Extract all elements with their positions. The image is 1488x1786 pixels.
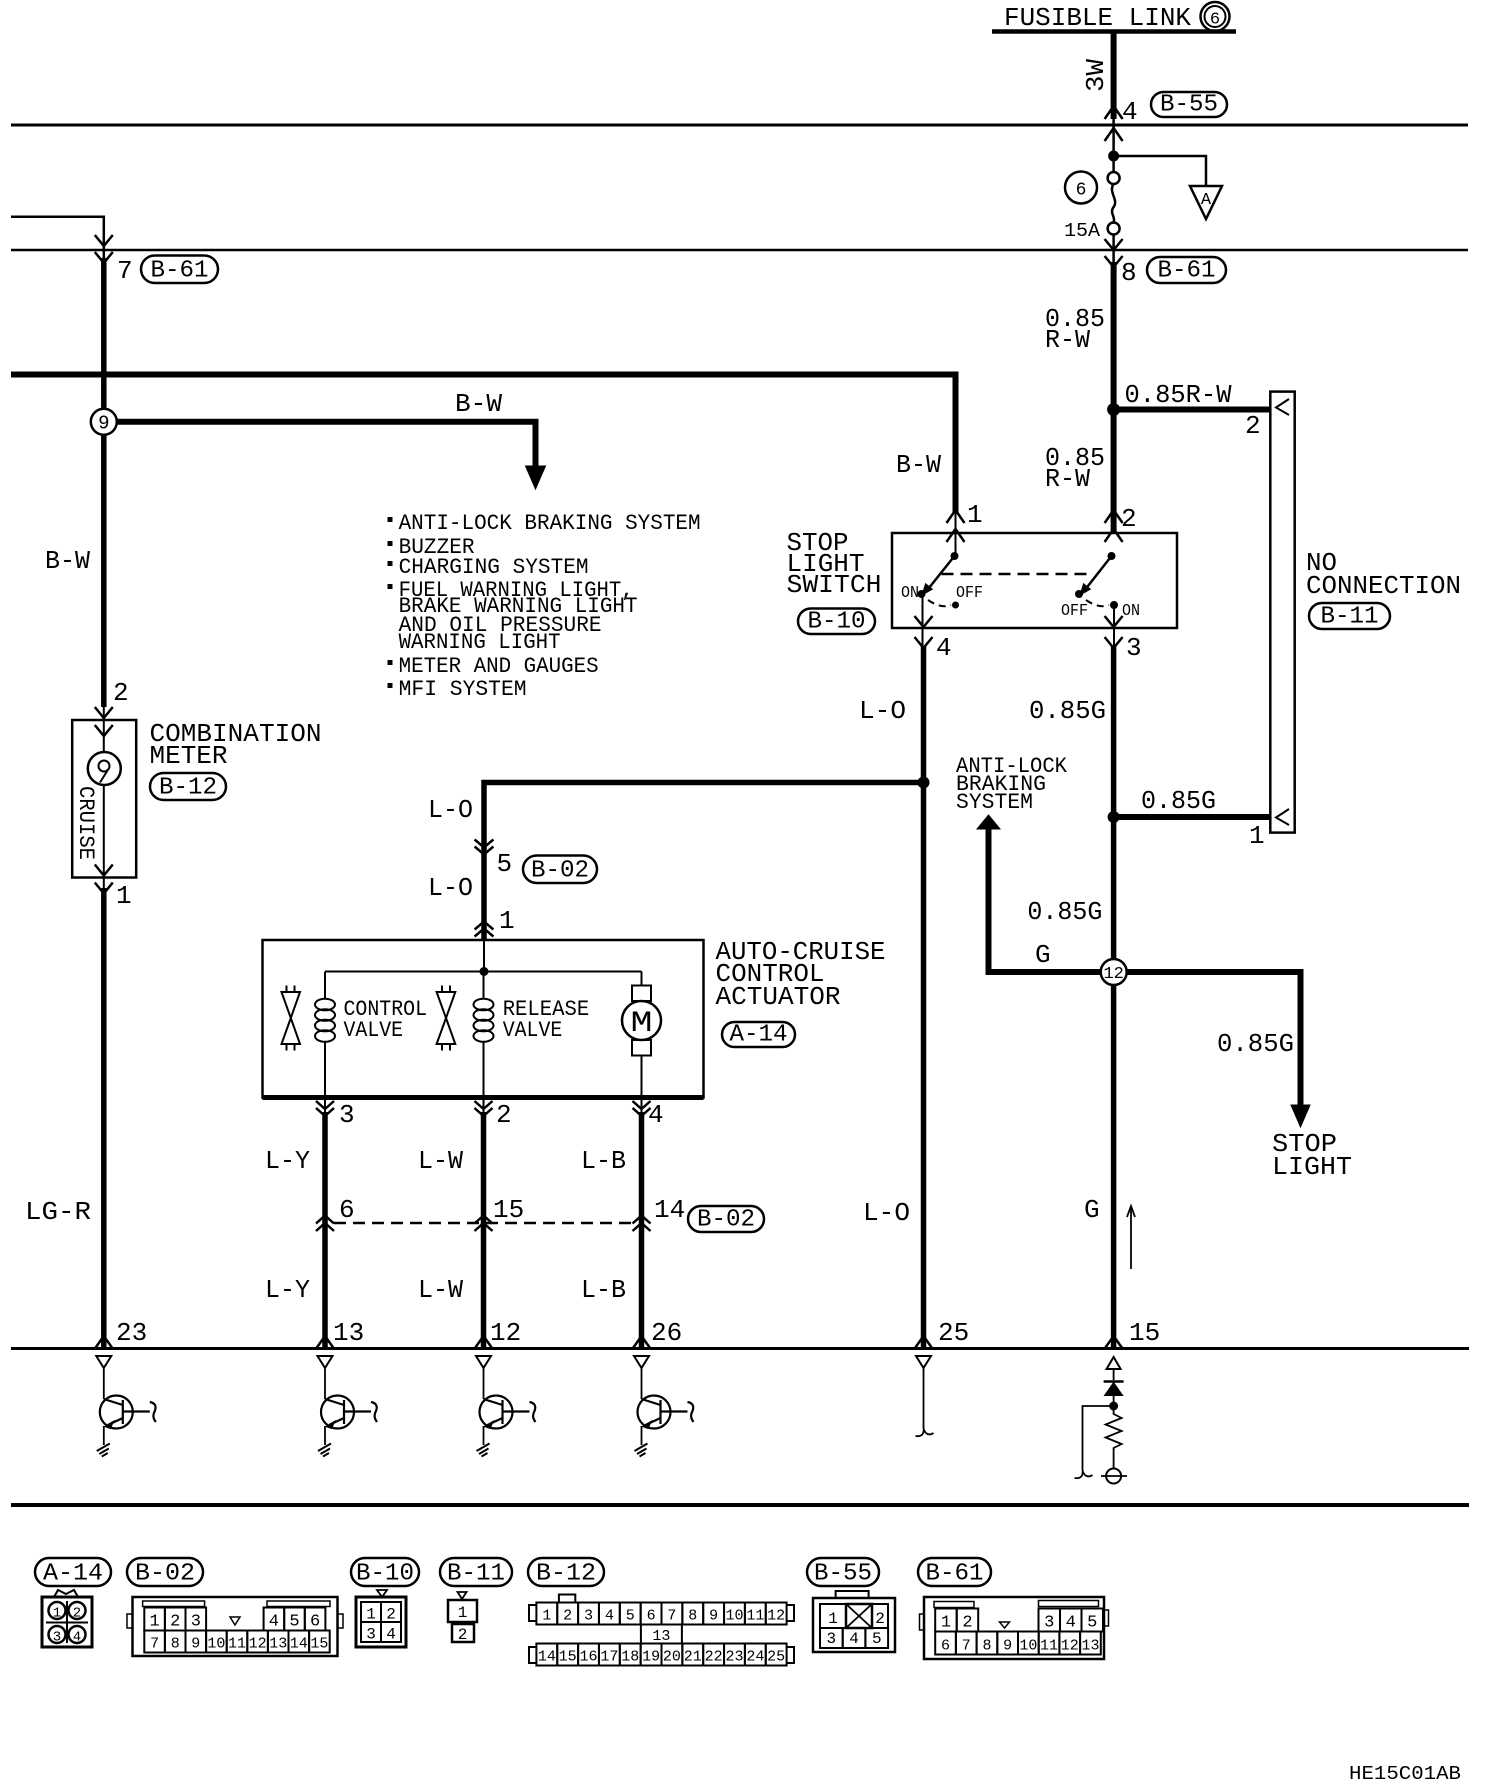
wire thick bus to stop light switch (11, 375, 956, 513)
legend label B-61 (918, 1558, 991, 1586)
svg-text:4: 4 (1066, 1614, 1076, 1633)
svg-text:12: 12 (249, 1636, 267, 1653)
svg-text:1: 1 (967, 500, 983, 530)
svg-text:22: 22 (705, 1649, 723, 1666)
svg-text:L-B: L-B (581, 1146, 626, 1176)
svg-text:17: 17 (600, 1649, 618, 1666)
svg-text:B-W: B-W (896, 450, 941, 480)
svg-text:2: 2 (496, 1100, 512, 1130)
switch pole 1 blade (929, 556, 955, 589)
svg-text:L-Y: L-Y (265, 1275, 310, 1305)
svg-text:2: 2 (73, 1606, 81, 1622)
svg-text:1: 1 (149, 1613, 159, 1632)
svg-text:24: 24 (746, 1649, 764, 1666)
svg-text:3: 3 (191, 1613, 201, 1632)
svg-text:7: 7 (117, 256, 133, 286)
connector B-10 pin 4 arrows (915, 616, 933, 627)
svg-text:0.85G: 0.85G (1217, 1029, 1294, 1059)
svg-text:3: 3 (827, 1630, 837, 1648)
label 3W (1081, 59, 1111, 92)
ammeter A arrow symbol (1190, 186, 1222, 219)
diode and resistor to ground (pin 15) (1107, 1357, 1121, 1369)
svg-text:15: 15 (493, 1195, 524, 1225)
svg-text:16: 16 (580, 1649, 598, 1666)
connector B-61 pin 7 arrows (95, 235, 113, 246)
legend connector B-11 (458, 1592, 467, 1599)
wire L-O from switch pin 4 (921, 646, 927, 1347)
svg-text:4: 4 (73, 1630, 81, 1646)
svg-text:L-O: L-O (863, 1198, 910, 1228)
svg-text:B-61: B-61 (151, 258, 209, 285)
svg-text:METER: METER (150, 741, 228, 771)
svg-text:3: 3 (1044, 1614, 1054, 1633)
connector B-02 pin 15 arrows (475, 1216, 493, 1224)
svg-text:15A: 15A (1064, 220, 1101, 242)
legend connector B-10 (377, 1590, 387, 1597)
svg-text:6: 6 (1076, 181, 1087, 201)
wire L-O branch to actuator (484, 783, 924, 941)
control valve coil (324, 972, 326, 1000)
splice circle 9 (91, 409, 117, 435)
svg-text:G: G (1035, 940, 1051, 970)
svg-text:4: 4 (648, 1100, 664, 1130)
fusible link underline (992, 29, 1236, 34)
junction dot R-W (1107, 403, 1120, 416)
svg-text:B-02: B-02 (697, 1207, 755, 1234)
svg-text:10: 10 (1019, 1638, 1037, 1655)
svg-text:15: 15 (310, 1636, 328, 1653)
svg-text:26: 26 (651, 1318, 682, 1348)
svg-text:SYSTEM: SYSTEM (956, 790, 1033, 815)
wire: bottom connector rule (11, 1347, 1469, 1350)
svg-text:14: 14 (290, 1636, 308, 1653)
connector label B-10 (798, 609, 875, 635)
svg-text:L-W: L-W (418, 1146, 463, 1176)
svg-text:9: 9 (709, 1608, 718, 1625)
switch pole 2 pivot (1108, 552, 1116, 560)
connector B-11 no connection box (1270, 392, 1294, 833)
svg-text:L-Y: L-Y (265, 1146, 310, 1176)
connector pin 23 arrow (95, 1336, 112, 1348)
label CRUISE vertical (73, 786, 98, 860)
svg-text:L-O: L-O (428, 795, 473, 825)
auto-cruise control actuator box (263, 940, 704, 1098)
svg-text:14: 14 (654, 1195, 685, 1225)
svg-text:ANTI-LOCK BRAKING SYSTEM: ANTI-LOCK BRAKING SYSTEM (399, 511, 701, 536)
svg-text:B-61: B-61 (1158, 258, 1216, 285)
svg-text:10: 10 (725, 1608, 743, 1625)
wire thin feeder top left (11, 217, 104, 262)
svg-text:0.85R-W: 0.85R-W (1125, 380, 1232, 410)
svg-text:23: 23 (725, 1649, 743, 1666)
svg-text:3: 3 (53, 1630, 61, 1646)
svg-text:2: 2 (1245, 411, 1261, 441)
svg-text:CHARGING SYSTEM: CHARGING SYSTEM (399, 555, 589, 580)
wire from B-55 to fuse (1112, 119, 1115, 172)
svg-text:3W: 3W (1081, 59, 1111, 92)
legend label A-14 (35, 1558, 111, 1586)
wire B-W left vertical (101, 258, 107, 707)
svg-text:L-W: L-W (418, 1275, 463, 1305)
svg-text:12: 12 (1061, 1638, 1079, 1655)
svg-text:2: 2 (386, 1606, 396, 1624)
svg-text:ACTUATOR: ACTUATOR (716, 982, 841, 1012)
svg-text:4: 4 (849, 1630, 859, 1648)
svg-text:6: 6 (941, 1638, 950, 1655)
svg-text:4: 4 (936, 633, 952, 663)
legend connector A-14 (42, 1597, 92, 1647)
combination meter box (72, 720, 136, 878)
connector A-14 pin 1 arrows (475, 922, 494, 930)
svg-text:7: 7 (150, 1636, 159, 1653)
release valve symbol (441, 986, 443, 993)
svg-text:6: 6 (339, 1195, 355, 1225)
svg-text:ON: ON (901, 584, 919, 603)
svg-text:L-O: L-O (428, 873, 473, 903)
svg-text:11: 11 (228, 1636, 246, 1653)
wire: horizontal page rule 2 (11, 249, 1468, 252)
svg-text:B-55: B-55 (1160, 92, 1218, 119)
svg-text:13: 13 (1081, 1638, 1099, 1655)
svg-text:11: 11 (746, 1608, 764, 1625)
svg-text:METER AND GAUGES: METER AND GAUGES (399, 654, 599, 679)
switch pole 1 OFF contact (952, 602, 959, 609)
svg-text:8: 8 (1121, 258, 1137, 288)
connector B-10 pin 1 arrows (947, 510, 965, 523)
svg-text:1: 1 (458, 1604, 468, 1622)
svg-text:19: 19 (642, 1649, 660, 1666)
connector label B-12 (150, 773, 226, 800)
svg-text:18: 18 (621, 1649, 639, 1666)
connector label B-02 lower (688, 1206, 764, 1232)
svg-text:5: 5 (626, 1608, 635, 1625)
svg-text:B-61: B-61 (926, 1561, 984, 1588)
connector pin 25 arrow (915, 1336, 932, 1348)
wire to B-11 pin 1 (1114, 814, 1271, 820)
svg-text:25: 25 (767, 1649, 785, 1666)
svg-text:7: 7 (962, 1638, 971, 1655)
svg-text:4: 4 (386, 1626, 396, 1644)
circled 6 symbol (1201, 2, 1230, 31)
B-11 pin 1 terminal (1276, 809, 1289, 825)
svg-text:9: 9 (1003, 1638, 1012, 1655)
svg-text:9: 9 (98, 413, 109, 435)
svg-text:1: 1 (116, 881, 132, 911)
svg-text:B-02: B-02 (531, 858, 589, 885)
connector pin 15 arrow (1105, 1336, 1122, 1348)
wire B-W to switch pin 1 (955, 512, 957, 556)
wire actuator internal bus (483, 940, 485, 972)
svg-text:A-14: A-14 (43, 1561, 103, 1588)
transistor Q1 (pin 23) (96, 1356, 111, 1368)
switch pole 2 OFF contact (1075, 590, 1083, 598)
legend connector B-12 (559, 1595, 575, 1603)
svg-text:2: 2 (170, 1613, 180, 1632)
wire pole1 to pin 4 (922, 594, 924, 650)
switch pole 1 ON contact (918, 590, 926, 598)
svg-text:G: G (1084, 1195, 1100, 1225)
svg-text:12: 12 (767, 1608, 785, 1625)
svg-text:VALVE: VALVE (344, 1018, 404, 1043)
junction dot G (1108, 811, 1120, 823)
wire B-W branch to systems (117, 422, 536, 468)
svg-text:6: 6 (1210, 11, 1220, 30)
release valve coil (483, 972, 485, 1000)
wire 0.85G vertical (1111, 646, 1117, 1347)
svg-text:OFF: OFF (956, 584, 983, 603)
arrow to ABS (977, 815, 1000, 829)
svg-text:6: 6 (647, 1608, 656, 1625)
wire 0.85R-W vertical (1111, 262, 1117, 533)
transistor Q4 (pin 26) (634, 1356, 649, 1368)
svg-text:WARNING LIGHT: WARNING LIGHT (399, 630, 561, 655)
wire: bottom heavy rule (11, 1503, 1469, 1507)
svg-text:L-B: L-B (581, 1275, 626, 1305)
pin 25 stub (916, 1356, 931, 1368)
svg-text:12: 12 (490, 1318, 521, 1348)
svg-text:MFI SYSTEM: MFI SYSTEM (399, 677, 527, 702)
switch pole 2 ON contact (1110, 601, 1118, 609)
svg-text:14: 14 (538, 1649, 556, 1666)
svg-text:10: 10 (207, 1636, 225, 1653)
connector B-02 pin 5 arrows (475, 840, 494, 848)
svg-text:8: 8 (688, 1608, 697, 1625)
svg-text:13: 13 (333, 1318, 364, 1348)
svg-text:3: 3 (366, 1626, 376, 1644)
svg-text:5: 5 (1087, 1614, 1097, 1633)
B-11 pin 2 terminal (1276, 399, 1289, 415)
wire splice12 to stop light (1127, 972, 1301, 1106)
svg-text:13: 13 (652, 1628, 670, 1645)
svg-text:3: 3 (584, 1608, 593, 1625)
svg-text:5: 5 (289, 1613, 299, 1632)
connector B-10 pin 2 arrows (1105, 510, 1123, 523)
wire 3W from fusible link (1111, 32, 1117, 120)
svg-text:CONNECTION: CONNECTION (1306, 571, 1461, 601)
legend connector B-61 (924, 1597, 1104, 1659)
svg-text:2: 2 (875, 1610, 885, 1628)
svg-text:1: 1 (1249, 821, 1265, 851)
svg-text:2: 2 (458, 1626, 468, 1644)
switch pole 2 dashed throw (1086, 600, 1109, 606)
svg-text:20: 20 (663, 1649, 681, 1666)
switch linkage dashed (942, 573, 1090, 576)
svg-text:1: 1 (542, 1608, 551, 1625)
svg-text:2: 2 (962, 1614, 972, 1633)
svg-text:B-55: B-55 (814, 1561, 872, 1588)
svg-text:R-W: R-W (1045, 464, 1090, 494)
transistor Q3 (pin 12) (476, 1356, 491, 1368)
connector B-02 dashed line (334, 1222, 633, 1225)
switch pole 1 pivot (951, 552, 959, 560)
svg-text:B-W: B-W (455, 389, 502, 419)
fuse number circled 6 (1065, 172, 1097, 204)
wire inside meter (103, 704, 105, 891)
svg-text:21: 21 (684, 1649, 702, 1666)
svg-text:LIGHT: LIGHT (1272, 1152, 1352, 1182)
arrow to stop light (1291, 1105, 1310, 1127)
junction dot L-O (918, 777, 930, 789)
connector B-55 pin 4 arrows (1105, 106, 1123, 119)
svg-text:B-10: B-10 (356, 1561, 414, 1588)
junction dot above fuse (1108, 151, 1119, 162)
switch pole 2 blade (1086, 556, 1112, 589)
fuse 6 symbol (1108, 172, 1120, 184)
svg-text:1: 1 (53, 1606, 61, 1622)
transistor Q2 (pin 13) (318, 1356, 333, 1368)
motor M symbol (641, 972, 643, 986)
svg-text:L-O: L-O (859, 696, 906, 726)
connector label B-55 (1151, 92, 1227, 117)
wire: horizontal page rule 1 (11, 124, 1468, 127)
svg-text:5: 5 (497, 849, 513, 879)
svg-text:2: 2 (1121, 504, 1137, 534)
wire LG-R (101, 888, 107, 1347)
wire L-B (641, 1099, 643, 1113)
svg-text:FUSIBLE LINK: FUSIBLE LINK (1004, 3, 1191, 33)
wire L-Y (324, 1099, 326, 1113)
wire to B-11 pin 2 (1114, 407, 1271, 413)
switch pole 1 dashed throw (928, 600, 951, 606)
svg-text:8: 8 (982, 1638, 991, 1655)
svg-text:2: 2 (113, 678, 129, 708)
splice circle 12 (1101, 959, 1127, 985)
svg-text:0.85G: 0.85G (1029, 696, 1106, 726)
legend label B-55 (807, 1558, 879, 1586)
connector label B-02 mid (523, 856, 597, 884)
svg-text:4: 4 (605, 1608, 614, 1625)
svg-text:B-12: B-12 (159, 775, 217, 802)
legend label B-11 (440, 1558, 512, 1586)
connector A-14 pin 2 arrows (475, 1101, 493, 1109)
svg-text:1: 1 (828, 1610, 838, 1628)
control valve symbol (286, 986, 288, 993)
cruise indicator bulb (88, 752, 121, 785)
connector pin 26 arrow (633, 1336, 650, 1348)
arrow to systems list (526, 466, 546, 489)
svg-text:7: 7 (667, 1608, 676, 1625)
stop light switch box (892, 533, 1177, 628)
svg-text:SWITCH: SWITCH (787, 570, 882, 600)
svg-text:B-11: B-11 (447, 1561, 505, 1588)
junction dot actuator (480, 967, 489, 976)
svg-text:15: 15 (1129, 1318, 1160, 1348)
wire L-W (483, 1099, 485, 1113)
svg-text:VALVE: VALVE (503, 1018, 563, 1043)
connector B-02 pin 14 arrows (633, 1216, 651, 1224)
connector label B-61 top left (141, 256, 218, 284)
svg-text:B-10: B-10 (808, 609, 866, 636)
svg-text:6: 6 (310, 1613, 320, 1632)
svg-text:4: 4 (269, 1613, 279, 1632)
connector B-10 pin 3 arrows (1105, 616, 1123, 627)
connector label A-14 (722, 1022, 795, 1047)
wire to ammeter branch (1114, 156, 1206, 186)
svg-text:1: 1 (499, 906, 515, 936)
legend label B-10 (351, 1558, 419, 1586)
svg-text:8: 8 (171, 1636, 180, 1653)
connector pin 13 arrow (317, 1336, 334, 1348)
connector B-61 pin 8 arrows (1105, 239, 1123, 250)
svg-text:HE15C01AB: HE15C01AB (1349, 1763, 1461, 1785)
legend label B-12 (528, 1558, 604, 1586)
svg-text:12: 12 (1103, 965, 1123, 984)
svg-text:CRUISE: CRUISE (73, 786, 98, 860)
svg-text:9: 9 (191, 1636, 200, 1653)
connector label B-11 (1309, 603, 1390, 629)
wire fuse to connector B-61 pin 8 (1112, 235, 1115, 265)
svg-text:5: 5 (872, 1630, 882, 1648)
svg-text:4: 4 (1122, 97, 1138, 127)
svg-text:0.85G: 0.85G (1027, 897, 1102, 927)
wire pole2 to pin 3 (1113, 605, 1115, 650)
svg-text:LG-R: LG-R (25, 1197, 91, 1227)
flow direction arrow (1130, 1208, 1132, 1269)
svg-text:3: 3 (1126, 633, 1142, 663)
svg-text:1: 1 (941, 1614, 951, 1633)
legend connector B-55 (813, 1598, 895, 1652)
connector B-02 pin 6 arrows (316, 1216, 334, 1224)
svg-text:OFF: OFF (1061, 602, 1088, 621)
systems served list (388, 517, 393, 522)
svg-text:A: A (1201, 191, 1212, 210)
svg-text:ON: ON (1122, 602, 1140, 621)
svg-text:1: 1 (366, 1606, 376, 1624)
svg-text:B-12: B-12 (536, 1561, 596, 1588)
svg-text:13: 13 (269, 1636, 287, 1653)
connector B-12 pin 1 arrows (95, 865, 113, 876)
svg-text:25: 25 (938, 1318, 969, 1348)
connector A-14 pin 4 arrows (633, 1101, 651, 1109)
svg-text:3: 3 (339, 1100, 355, 1130)
svg-text:A-14: A-14 (730, 1022, 788, 1049)
svg-text:15: 15 (559, 1649, 577, 1666)
svg-text:2: 2 (563, 1608, 572, 1625)
svg-text:11: 11 (1040, 1638, 1058, 1655)
svg-text:R-W: R-W (1045, 325, 1090, 355)
svg-text:M: M (631, 1007, 653, 1041)
legend connector B-02 (133, 1597, 338, 1656)
connector label B-61 top right (1147, 257, 1226, 283)
svg-text:B-02: B-02 (135, 1561, 195, 1588)
svg-text:B-11: B-11 (1321, 604, 1379, 631)
svg-text:23: 23 (116, 1318, 147, 1348)
legend label B-02 (127, 1558, 203, 1586)
connector A-14 pin 3 arrows (316, 1101, 334, 1109)
connector B-12 pin 2 arrows (95, 707, 113, 718)
svg-text:0.85G: 0.85G (1141, 786, 1216, 816)
connector pin 12 arrow (475, 1336, 492, 1348)
svg-text:B-W: B-W (45, 546, 90, 576)
